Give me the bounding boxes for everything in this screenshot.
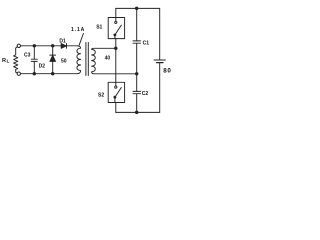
diode D2 bbox=[50, 46, 56, 74]
node C3 bottom junction bbox=[33, 72, 36, 75]
svg-text:80: 80 bbox=[163, 68, 171, 75]
fuse pointer line 1.1A bbox=[79, 33, 83, 45]
svg-text:C2: C2 bbox=[142, 91, 149, 97]
switch S2 bbox=[108, 82, 124, 102]
capacitor C2 bbox=[133, 74, 141, 113]
svg-text:RL: RL bbox=[2, 58, 10, 64]
svg-text:D2: D2 bbox=[39, 63, 46, 69]
node secondary top junction bbox=[115, 47, 118, 50]
node C column bottom junction bbox=[135, 111, 138, 114]
svg-text:S1: S1 bbox=[96, 24, 102, 30]
wire bottom-left rail bbox=[21, 73, 78, 75]
svg-text:1.1A: 1.1A bbox=[71, 27, 85, 33]
node D2 top junction bbox=[51, 45, 54, 48]
transformer primary winding 50 bbox=[77, 46, 81, 74]
capacitor C3 bbox=[31, 46, 37, 74]
svg-text:50: 50 bbox=[61, 58, 67, 64]
wire bottom rail right bbox=[116, 111, 160, 113]
svg-text:40: 40 bbox=[105, 56, 111, 62]
svg-text:C3: C3 bbox=[24, 52, 31, 58]
wire S1-S2 midpoint bbox=[115, 39, 117, 83]
node C3 top junction bbox=[33, 45, 36, 48]
wire top rail right bbox=[116, 7, 160, 9]
node C1-C2 midpoint junction bbox=[135, 73, 138, 76]
wire S2 bottom lead bbox=[115, 103, 117, 113]
capacitor C1 bbox=[133, 8, 141, 73]
wire S1 top lead bbox=[115, 8, 117, 17]
switch S1 bbox=[108, 18, 124, 39]
svg-text:S2: S2 bbox=[98, 92, 104, 98]
resistor RL bbox=[14, 47, 18, 74]
terminal bottom-left input bbox=[17, 72, 20, 75]
node C column top junction bbox=[135, 7, 138, 10]
wire top-left rail bbox=[21, 45, 79, 47]
svg-text:D1: D1 bbox=[59, 39, 66, 45]
node D2 bottom junction bbox=[51, 72, 54, 75]
transformer secondary winding 40 bbox=[92, 48, 137, 74]
svg-text:C1: C1 bbox=[143, 40, 150, 46]
diode D1 bbox=[61, 44, 66, 49]
battery 80 bbox=[154, 8, 165, 112]
transformer core bbox=[85, 43, 87, 76]
terminal top-left input bbox=[17, 44, 20, 47]
